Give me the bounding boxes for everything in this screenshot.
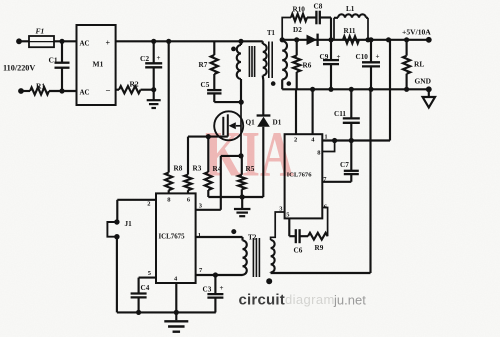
svg-text:ICL7676: ICL7676 [287,172,313,179]
svg-text:T1: T1 [267,30,276,37]
svg-text:M1: M1 [93,60,104,69]
svg-text:R8: R8 [174,165,183,173]
svg-text:C7: C7 [340,161,349,169]
svg-text:R11: R11 [344,27,356,35]
svg-text:R1: R1 [36,82,45,91]
svg-text:110/220V: 110/220V [3,64,35,73]
svg-text:C10: C10 [356,53,369,61]
svg-text:C8: C8 [314,3,323,11]
svg-text:C5: C5 [201,81,210,89]
svg-text:+5V/10A: +5V/10A [402,28,431,37]
svg-text:R10: R10 [293,6,306,14]
svg-text:circuit: circuit [239,292,285,309]
svg-text:GND: GND [415,77,431,86]
svg-text:+: + [106,39,111,48]
svg-text:C4: C4 [141,284,150,292]
svg-text:ICL7675: ICL7675 [159,233,186,240]
svg-text:F1: F1 [36,27,45,36]
svg-text:RL: RL [414,60,424,69]
svg-text:D2: D2 [293,26,302,34]
svg-text:C1: C1 [49,56,58,65]
svg-text:C6: C6 [294,247,303,255]
svg-text:R7: R7 [199,61,208,69]
svg-text:R3: R3 [193,165,202,173]
svg-text:T2: T2 [248,233,257,241]
svg-text:Q1: Q1 [246,119,256,127]
svg-text:AC: AC [80,40,90,48]
svg-text:diagram: diagram [285,292,335,307]
svg-text:+: + [376,53,380,61]
svg-text:C2: C2 [140,54,149,63]
svg-text:R9: R9 [315,244,324,252]
svg-text:J1: J1 [125,220,133,228]
svg-text:D1: D1 [273,119,282,127]
svg-text:R4: R4 [213,165,222,173]
svg-text:+: + [157,54,161,62]
svg-text:+: + [220,284,224,292]
svg-text:C3: C3 [203,286,212,294]
svg-text:+: + [337,53,341,61]
svg-text:C9: C9 [320,53,329,61]
svg-text:C11: C11 [334,110,346,118]
svg-text:AC: AC [80,89,90,97]
svg-text:R5: R5 [246,165,255,173]
svg-text:2: 2 [294,137,297,144]
svg-text:R6: R6 [303,62,312,70]
svg-text:L1: L1 [346,5,355,13]
svg-text:2: 2 [147,201,150,208]
svg-text:ju.net: ju.net [333,293,366,308]
svg-text:R2: R2 [130,80,139,89]
